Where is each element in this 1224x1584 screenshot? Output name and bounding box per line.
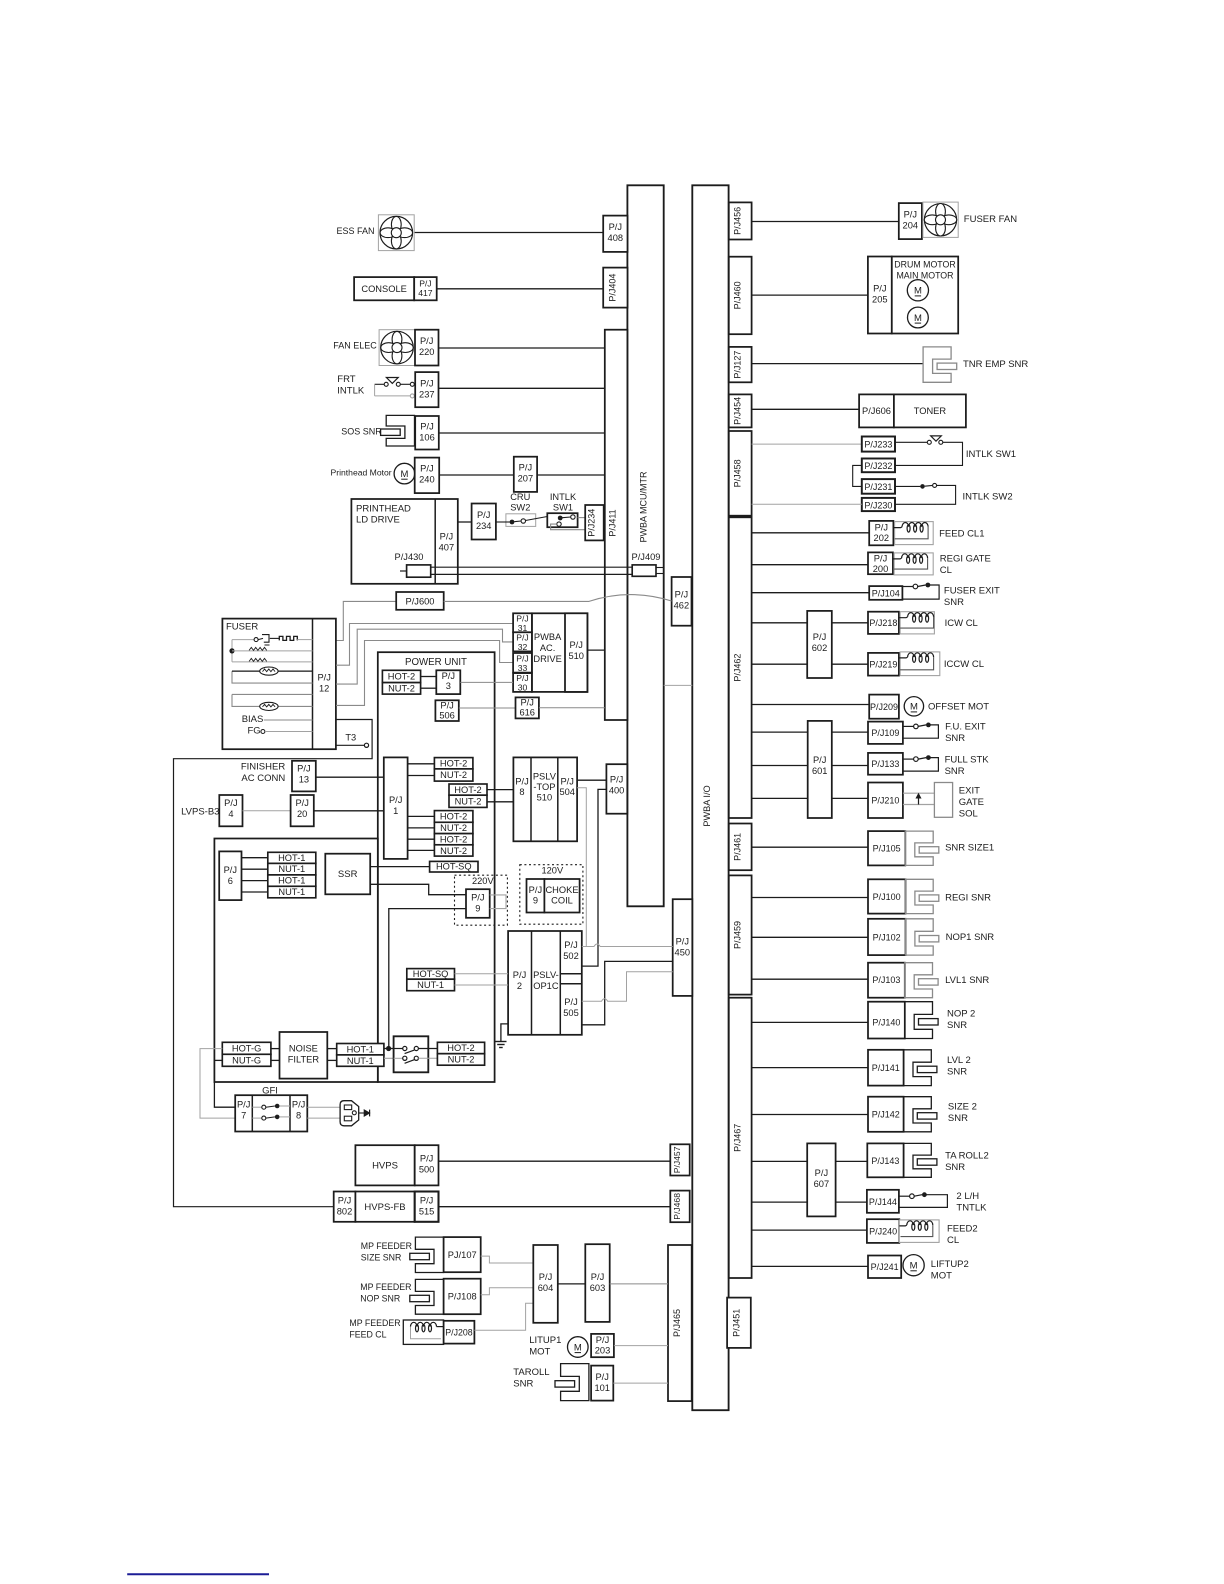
wire P/J458 to P/J230 <box>752 503 862 505</box>
connector P/J407 <box>434 499 436 584</box>
connector P/J32 <box>513 632 532 651</box>
svg-text:MOT: MOT <box>529 1347 550 1358</box>
NOP 2 SNR sensor <box>905 1002 933 1039</box>
svg-text:P/J: P/J <box>513 970 526 980</box>
svg-text:P/J100: P/J100 <box>873 892 901 902</box>
svg-text:P/J458: P/J458 <box>733 459 743 487</box>
svg-text:P/J105: P/J105 <box>873 844 901 854</box>
fuser lamp loop 1 <box>232 671 313 683</box>
wire P/J454 to P/J606 <box>752 408 860 410</box>
connector P/J462 stub on PWBA I/O (left) <box>672 577 692 626</box>
wire P/J515 to P/J468 <box>439 1206 671 1208</box>
svg-text:M: M <box>910 1261 918 1272</box>
wire P/J510 to P/J411 <box>587 649 604 651</box>
wire P/J459 to P/J102 <box>752 936 868 938</box>
svg-text:SNR SIZE1: SNR SIZE1 <box>945 843 994 854</box>
connector P/J451 on PWBA I/O <box>727 1298 751 1348</box>
connector P/J3 <box>436 670 460 694</box>
svg-text:OFFSET MOT: OFFSET MOT <box>928 702 989 713</box>
svg-text:NOP1 SNR: NOP1 SNR <box>946 932 995 943</box>
svg-text:FUSER EXIT: FUSER EXIT <box>944 586 1000 597</box>
wires P/J8 to plug <box>307 1106 340 1108</box>
connector P/J454 on PWBA I/O <box>729 394 752 427</box>
connector P/J202 <box>869 521 893 545</box>
svg-text:CHOKE: CHOKE <box>545 885 578 895</box>
svg-text:106: 106 <box>419 433 435 443</box>
HOT-G terminal <box>222 1042 271 1054</box>
CRU SW2 switch <box>506 514 536 527</box>
svg-text:OP1C: OP1C <box>533 981 559 991</box>
connector P/J500 <box>415 1145 439 1185</box>
svg-text:6: 6 <box>228 876 233 886</box>
connector P/J13 <box>292 761 316 792</box>
HOT-1 terminal (filter out) <box>337 1044 384 1055</box>
svg-text:ESS FAN: ESS FAN <box>336 226 374 236</box>
svg-text:P/J233: P/J233 <box>864 440 892 450</box>
wire P/J459 to P/J103 <box>752 978 868 980</box>
MP FEEDER FEED CL coil <box>403 1320 443 1344</box>
svg-text:12: 12 <box>319 684 329 694</box>
svg-text:LIFTUP2: LIFTUP2 <box>931 1259 969 1270</box>
wires pair to P/J8 <box>487 789 513 791</box>
wire P/J108 to P/J604 <box>481 1288 534 1295</box>
svg-text:P/J: P/J <box>515 777 528 787</box>
plug arrow <box>359 1112 365 1114</box>
GFI contacts <box>252 1106 261 1108</box>
wire HOT-G left to P/J7 <box>200 1049 235 1119</box>
wire P/J502 to P/J450 (gray) <box>582 944 673 947</box>
svg-text:P/J232: P/J232 <box>864 461 892 471</box>
wire P/J240 to P/J207 <box>439 474 514 476</box>
svg-text:7: 7 <box>241 1111 246 1121</box>
svg-text:P/J: P/J <box>295 798 308 808</box>
svg-text:P/J: P/J <box>595 1372 608 1382</box>
connector P/J459 on PWBA I/O <box>729 875 752 994</box>
svg-text:FEED2: FEED2 <box>947 1224 978 1235</box>
connector P/J233 <box>862 437 895 452</box>
FUSER FAN icon <box>923 202 958 237</box>
NOISE FILTER box <box>280 1032 328 1079</box>
connector P/J205 <box>868 257 892 334</box>
svg-text:NUT-1: NUT-1 <box>278 864 305 874</box>
connector P/J100 <box>868 879 906 913</box>
wires HOT-2/NUT-2 to P/J3 <box>421 676 437 678</box>
svg-text:P/J430: P/J430 <box>395 552 424 562</box>
svg-text:LVPS-B3: LVPS-B3 <box>181 807 219 818</box>
NUT-2 terminal <box>382 683 420 695</box>
svg-text:SNR: SNR <box>945 766 965 777</box>
svg-text:P/J: P/J <box>389 795 402 805</box>
MP FEEDER NOP SNR sensor <box>415 1279 443 1314</box>
connector P/J104 <box>869 586 902 600</box>
svg-text:P/J462: P/J462 <box>733 654 743 682</box>
wire P/J462 to P/J601 <box>752 731 808 733</box>
NOP1 SNR sensor <box>906 919 934 955</box>
svg-text:506: 506 <box>439 711 455 721</box>
svg-text:REGI GATE: REGI GATE <box>940 554 991 565</box>
svg-text:P/J109: P/J109 <box>871 728 899 738</box>
wire SSR to P/J9 <box>370 884 466 894</box>
connector P/J461 on PWBA I/O <box>729 824 752 871</box>
svg-text:32: 32 <box>518 642 528 652</box>
svg-text:P/J: P/J <box>519 463 532 473</box>
connector P/J458 on PWBA I/O <box>729 431 752 516</box>
svg-text:P/J460: P/J460 <box>733 281 743 309</box>
wire P/J467 to P/J142 <box>752 1114 868 1116</box>
svg-text:NOP SNR: NOP SNR <box>360 1294 400 1304</box>
svg-text:NUT-2: NUT-2 <box>440 823 467 833</box>
svg-text:P/J: P/J <box>874 554 887 564</box>
connector P/J604 <box>533 1245 558 1323</box>
DRUM MOTOR MAIN MOTOR box <box>892 257 958 334</box>
connector P/J505 <box>560 983 582 985</box>
svg-text:P/J: P/J <box>873 284 886 294</box>
svg-text:2 L/H: 2 L/H <box>956 1191 979 1202</box>
svg-text:HOT-1: HOT-1 <box>278 876 305 886</box>
wire P/J461 to P/J105 <box>752 846 868 848</box>
FEED CL1 coil <box>895 522 934 545</box>
connector P/J241 <box>868 1256 901 1279</box>
svg-text:P/J404: P/J404 <box>607 274 617 302</box>
svg-text:P/J: P/J <box>420 1196 433 1206</box>
LIFTUP2 MOT icon <box>903 1255 924 1276</box>
wire fuser to P/J32 <box>336 629 513 684</box>
svg-text:FAN ELEC: FAN ELEC <box>333 341 377 351</box>
connector P/J31 <box>513 613 532 632</box>
svg-text:505: 505 <box>563 1008 579 1018</box>
HOT-2 terminal <box>382 670 420 682</box>
connector P/J140 <box>868 1002 905 1039</box>
svg-text:504: 504 <box>559 787 575 797</box>
svg-text:TNR EMP SNR: TNR EMP SNR <box>963 359 1028 370</box>
svg-text:13: 13 <box>299 775 309 785</box>
INTLK SW2 contact <box>895 485 920 487</box>
wire P/J462 to P/J602 <box>752 622 807 624</box>
connector P/J467 on PWBA I/O <box>729 998 752 1278</box>
svg-text:NUT-2: NUT-2 <box>440 846 467 856</box>
connector P/J462 on PWBA I/O <box>729 517 752 818</box>
connector P/J234 (rotated) <box>585 505 604 540</box>
wire P/J506 to P/J616 <box>459 707 516 709</box>
svg-text:P/J: P/J <box>564 997 577 1007</box>
HOT-1/NUT-1 stack <box>268 852 316 863</box>
svg-text:HOT-2: HOT-2 <box>440 758 467 768</box>
connector P/J232 <box>862 459 895 473</box>
220V jumper loop <box>490 895 506 909</box>
svg-text:POWER UNIT: POWER UNIT <box>405 657 467 668</box>
svg-text:P/J234: P/J234 <box>587 509 597 537</box>
wire P/J20 to P/J1 <box>314 810 384 812</box>
svg-text:MP FEEDER: MP FEEDER <box>360 1282 411 1292</box>
connector P/J601 <box>808 721 832 818</box>
connector P/J207 <box>514 457 537 492</box>
svg-text:P/J: P/J <box>516 633 528 643</box>
svg-text:604: 604 <box>538 1283 554 1293</box>
svg-text:P/J461: P/J461 <box>733 833 743 861</box>
REGI SNR sensor <box>906 879 934 913</box>
svg-text:TA ROLL2: TA ROLL2 <box>945 1151 989 1162</box>
220V dashed box <box>455 875 508 925</box>
svg-text:COIL: COIL <box>551 896 573 906</box>
EXIT GATE SOL <box>903 792 935 794</box>
NUT-2 terminal (switch out) <box>437 1054 484 1066</box>
svg-text:-TOP: -TOP <box>533 782 555 792</box>
AC plug icon <box>340 1101 359 1126</box>
connector P/J133 <box>868 753 903 775</box>
svg-text:PSLV-: PSLV- <box>533 970 559 980</box>
NUT-1 terminal (OP1C) <box>407 979 455 991</box>
svg-text:FG: FG <box>248 726 261 737</box>
wire P/J407 to P/J 234 <box>458 521 472 523</box>
page footer line <box>127 1573 269 1575</box>
svg-text:MP FEEDER: MP FEEDER <box>349 1318 400 1328</box>
FUSER EXIT SNR switch <box>902 586 913 588</box>
svg-text:SNR: SNR <box>947 1020 967 1031</box>
connector P/J209 <box>869 695 899 719</box>
fuser T3 terminal <box>336 744 364 746</box>
svg-text:CL: CL <box>940 565 952 576</box>
svg-text:MAIN MOTOR: MAIN MOTOR <box>896 271 953 281</box>
wire P/J601 to P/J210 <box>832 797 868 799</box>
svg-text:8: 8 <box>296 1111 301 1121</box>
SNR SIZE1 sensor <box>905 831 933 865</box>
connector P/J109 <box>868 722 903 744</box>
wire ESS FAN to P/J408 <box>414 232 603 234</box>
svg-text:P/J133: P/J133 <box>871 759 899 769</box>
svg-text:DRUM MOTOR: DRUM MOTOR <box>894 260 955 270</box>
svg-text:HOT-SQ: HOT-SQ <box>436 862 472 872</box>
svg-text:P/J: P/J <box>609 222 622 232</box>
connector P/J430 with pigtail <box>407 565 431 577</box>
connector P/J411 on MCU/MTR <box>605 330 628 720</box>
junction HOT-1 to switch <box>384 1048 394 1050</box>
wire P/J467 to P/J241 <box>752 1265 868 1267</box>
svg-text:502: 502 <box>563 951 579 961</box>
svg-text:HOT-2: HOT-2 <box>440 834 467 844</box>
INTLK SW1 contact <box>895 441 927 443</box>
wires P/J1 to stack top <box>408 763 435 765</box>
svg-text:200: 200 <box>873 564 889 574</box>
svg-text:CRU: CRU <box>510 492 530 502</box>
svg-text:601: 601 <box>812 766 828 776</box>
connector P/J408 <box>603 216 627 252</box>
svg-text:602: 602 <box>812 643 828 653</box>
svg-text:PSLV: PSLV <box>533 772 557 782</box>
Printhead Motor icon <box>394 463 415 484</box>
ground symbol <box>495 1041 506 1043</box>
wire P/J467 to P/J607 <box>752 1160 807 1162</box>
svg-text:P/J218: P/J218 <box>869 618 897 628</box>
NUT-1 terminal (filter out) <box>337 1055 384 1066</box>
svg-text:LVL 2: LVL 2 <box>947 1055 971 1066</box>
svg-text:802: 802 <box>337 1207 353 1217</box>
svg-text:P/J: P/J <box>539 1272 552 1282</box>
svg-text:SNR: SNR <box>513 1379 533 1390</box>
POWER UNIT box <box>378 652 495 1082</box>
svg-text:9: 9 <box>533 896 538 906</box>
connector P/J457 on PWBA I/O (left) <box>670 1144 689 1175</box>
svg-text:462: 462 <box>674 601 690 611</box>
svg-text:FEED CL: FEED CL <box>349 1330 386 1340</box>
svg-text:417: 417 <box>418 288 433 298</box>
connector P/J404 <box>603 268 627 308</box>
svg-text:P/J: P/J <box>520 698 533 708</box>
svg-text:T3: T3 <box>345 733 356 743</box>
svg-text:P/J: P/J <box>529 885 542 895</box>
MP FEEDER SIZE SNR sensor <box>415 1237 443 1272</box>
svg-text:P/J: P/J <box>338 1196 351 1206</box>
svg-text:SIZE 2: SIZE 2 <box>948 1102 977 1113</box>
connector P/J12 <box>312 619 314 750</box>
svg-text:PRINTHEAD: PRINTHEAD <box>356 504 411 515</box>
connector P/J502 <box>560 973 582 975</box>
NUT-G terminal <box>222 1054 271 1066</box>
connector P/J468 on PWBA I/O (left) <box>670 1191 689 1223</box>
wire pair P/J430 to P/J409 <box>431 566 633 568</box>
svg-text:P/J143: P/J143 <box>871 1156 899 1166</box>
svg-text:PWBA: PWBA <box>534 632 562 642</box>
connector P/J9 (220V) <box>466 889 490 918</box>
svg-text:P/J: P/J <box>237 1100 250 1110</box>
svg-text:ICW CL: ICW CL <box>945 618 978 629</box>
PSLV-OP1C box <box>508 931 582 1035</box>
wire P/J9 to junction <box>389 909 466 1047</box>
svg-text:SNR: SNR <box>948 1113 968 1124</box>
wires HOT-SQ/NUT-1 to P/J2 <box>455 973 509 975</box>
svg-text:237: 237 <box>419 390 435 400</box>
wire SOS SNR to P/J411 <box>439 432 605 434</box>
svg-text:450: 450 <box>675 948 691 958</box>
connector P/J142 <box>868 1097 904 1132</box>
svg-text:P/J208: P/J208 <box>445 1328 472 1338</box>
fuser junction <box>231 640 233 662</box>
svg-text:P/J457: P/J457 <box>672 1146 682 1173</box>
HOT-SQ terminal <box>430 861 478 872</box>
svg-text:EXIT: EXIT <box>959 786 980 797</box>
connector P/J 234 <box>472 504 496 540</box>
svg-text:AC.: AC. <box>540 643 556 653</box>
svg-text:205: 205 <box>872 295 888 305</box>
svg-text:M: M <box>574 1342 582 1353</box>
connector P/J450 on PWBA I/O <box>673 899 693 996</box>
svg-text:P/J: P/J <box>596 1335 609 1345</box>
connector P/J4 <box>219 795 242 826</box>
svg-text:LD DRIVE: LD DRIVE <box>356 515 400 526</box>
svg-text:P/J: P/J <box>676 937 689 947</box>
svg-text:PWBA MCU/MTR: PWBA MCU/MTR <box>639 471 649 542</box>
svg-text:P/J209: P/J209 <box>870 702 898 712</box>
svg-text:P/J: P/J <box>471 893 484 903</box>
svg-text:ICCW CL: ICCW CL <box>944 659 984 670</box>
connector P/J105 <box>868 831 905 865</box>
wire P/J504 to P/J502 node (gray) <box>577 788 586 947</box>
120V dashed box <box>520 865 583 925</box>
svg-text:HOT-2: HOT-2 <box>388 672 415 682</box>
svg-text:P/J: P/J <box>813 632 826 642</box>
wire fuser to P/J600 <box>336 601 396 640</box>
wire fuser to P/J31 <box>336 624 513 666</box>
GFI assembly box <box>235 1095 307 1131</box>
connector P/J231 <box>862 479 895 494</box>
svg-text:TONER: TONER <box>914 406 947 416</box>
svg-text:FILTER: FILTER <box>288 1055 320 1065</box>
svg-text:P/J: P/J <box>440 701 453 711</box>
fuser heater row 2 <box>232 650 313 652</box>
connector PJ/107 <box>444 1237 481 1272</box>
svg-text:8: 8 <box>519 787 524 797</box>
wires P/J6 to stack <box>242 857 268 859</box>
connector P/J219 <box>868 653 899 676</box>
connector P/J600 <box>396 592 444 610</box>
svg-text:P/J: P/J <box>516 614 528 624</box>
svg-text:NOP 2: NOP 2 <box>947 1009 975 1020</box>
wire P/J607 to P/J143 <box>836 1160 868 1162</box>
wires noise filter to HOT-1/NUT-1 <box>327 1048 336 1050</box>
ICCW CL coil <box>900 652 940 676</box>
svg-text:SW2: SW2 <box>510 503 530 513</box>
svg-text:P/J459: P/J459 <box>733 921 743 949</box>
svg-text:M: M <box>914 286 922 297</box>
wire SSR to HOT-SQ <box>370 866 429 868</box>
wire fuser to P/J33 <box>336 641 513 706</box>
svg-text:BIAS: BIAS <box>242 714 264 725</box>
svg-text:P/J465: P/J465 <box>672 1309 682 1337</box>
svg-text:HOT-2: HOT-2 <box>454 785 481 795</box>
svg-text:P/J230: P/J230 <box>864 500 892 510</box>
connector P/J510 <box>565 613 587 692</box>
connector P/J208 <box>444 1321 475 1344</box>
wire FAN ELEC to P/J411 <box>439 347 605 349</box>
svg-text:220: 220 <box>419 347 435 357</box>
HOT-2 terminal (switch out) <box>437 1042 484 1053</box>
svg-text:TAROLL: TAROLL <box>513 1367 549 1378</box>
svg-text:33: 33 <box>518 663 528 673</box>
svg-text:P/J606: P/J606 <box>862 406 891 416</box>
HVPS-FB box <box>355 1192 414 1222</box>
svg-text:HVPS: HVPS <box>372 1161 398 1172</box>
OFFSET MOT icon <box>904 697 923 716</box>
connector P/J204 <box>899 203 922 239</box>
svg-text:P/J: P/J <box>442 671 455 681</box>
connector P/J515 <box>415 1192 439 1222</box>
svg-text:FULL STK: FULL STK <box>945 755 990 766</box>
svg-text:INTLK SW2: INTLK SW2 <box>963 492 1013 503</box>
LVL1 SNR sensor <box>905 963 933 998</box>
svg-text:P/J: P/J <box>564 940 577 950</box>
svg-text:P/J411: P/J411 <box>608 509 618 536</box>
connector P/J240 (feeder) <box>867 1219 899 1243</box>
connector P/J802 <box>334 1192 356 1222</box>
svg-text:P/J219: P/J219 <box>869 660 897 670</box>
connector P/J200 <box>868 552 893 574</box>
wire P/J208 to P/J604 <box>474 1303 533 1330</box>
TONER box <box>894 394 966 427</box>
F.U. EXIT SNR switch <box>903 725 914 727</box>
svg-text:INTLK: INTLK <box>337 386 365 397</box>
wire inner box to P/J7 <box>214 1082 235 1107</box>
ground wire from P/J2 <box>501 1024 508 1042</box>
svg-text:FEED CL1: FEED CL1 <box>939 529 984 540</box>
svg-text:4: 4 <box>228 809 233 819</box>
wire P/J234 to P/J411 <box>604 513 605 515</box>
svg-text:M: M <box>914 313 922 324</box>
PRINTHEAD LD DRIVE box <box>351 499 457 584</box>
svg-text:101: 101 <box>594 1383 610 1393</box>
svg-text:P/J456: P/J456 <box>733 207 743 235</box>
LVL 2 SNR sensor <box>904 1050 932 1086</box>
FEED2 CL coil <box>899 1220 939 1243</box>
svg-text:PWBA I/O: PWBA I/O <box>702 785 712 826</box>
